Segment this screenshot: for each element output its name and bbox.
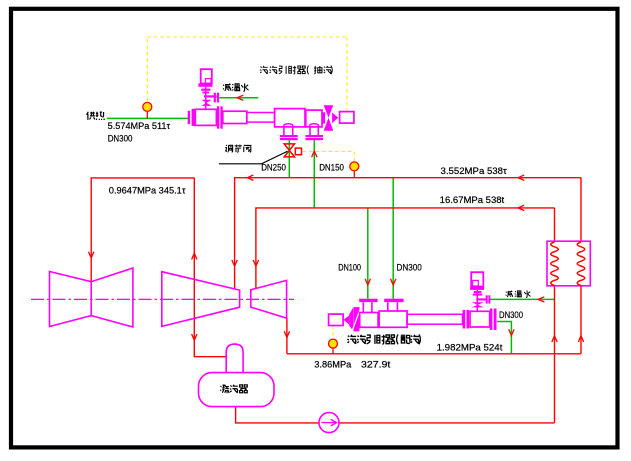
- hx left coil: [551, 242, 559, 285]
- arrow up on IP exhaust riser: [192, 253, 197, 259]
- pump (condensate): [319, 413, 339, 433]
- leader line to control valve label: [219, 151, 288, 164]
- wire crossover pipe 0.9647MPa loop: [91, 178, 194, 281]
- svg-text:5.574MPa 511τ: 5.574MPa 511τ: [108, 121, 171, 131]
- condenser body: [199, 373, 275, 407]
- svg-text:DN300: DN300: [499, 310, 523, 320]
- bottom ejector nozzle DN100: [359, 299, 377, 302]
- svg-text:3.552MPa 538τ: 3.552MPa 538τ: [441, 166, 508, 176]
- control valve DN250 (red): [284, 144, 294, 157]
- wire desuperheating water line (bottom ejector): [490, 298, 555, 300]
- arrow left on 3.552MPa line near HX: [518, 175, 524, 180]
- turbine LP double-flow: [50, 268, 133, 327]
- arrow down on DN100 feed: [365, 279, 370, 285]
- arrow down on 3.552 branch into turbine2: [232, 260, 237, 266]
- water valve actuator (top ejector): [201, 69, 212, 83]
- hx right coil: [577, 242, 585, 285]
- arrow down into LP turbine waist: [89, 252, 94, 258]
- arrow down on DN300 feed: [391, 279, 396, 285]
- top ejector outlet valve disc: [322, 112, 325, 123]
- svg-text:DN300: DN300: [397, 262, 422, 272]
- wire turbine3 exhaust drop: [286, 318, 288, 354]
- water valve body (top ejector): [201, 100, 211, 106]
- wire DN100 feed to bottom ejector nozzle: [367, 208, 369, 299]
- signal wire instrument I1 riser: [146, 37, 148, 101]
- signal wire from control valve to instrument I2: [303, 151, 355, 161]
- top ejector body section 1: [195, 109, 216, 125]
- top ejector throat tube: [247, 113, 275, 123]
- turbine HP: [251, 280, 287, 318]
- control valve actuator square: [295, 148, 301, 155]
- label 汽汽引射器（配汽）: [347, 335, 356, 344]
- bottom ejector end flange pair: [490, 309, 493, 331]
- wire DN250 drop through control valve: [288, 140, 290, 177]
- signal wire instrument I3 riser: [332, 326, 334, 339]
- wire DN300 outlet of bottom ejector: [497, 322, 512, 354]
- wire DN300 feed to bottom ejector nozzle: [392, 178, 394, 299]
- bottom ejector nozzle DN300: [384, 299, 403, 302]
- arrow up below HX right: [578, 336, 583, 342]
- top ejector diffuser box left: [275, 109, 305, 127]
- arrow down on turbine3 exhaust: [284, 331, 289, 337]
- turbine IP: [162, 272, 240, 327]
- water valve body (bottom ejector): [472, 302, 485, 307]
- signal wire top horizontal run: [147, 36, 347, 38]
- label 调节阀: [225, 145, 232, 152]
- wire heating-supply steam line (5.574MPa): [107, 117, 188, 119]
- wire bottom header: [287, 353, 581, 355]
- bottom ejector end box: [329, 314, 344, 325]
- top ejector diffuser box right: [306, 110, 322, 127]
- wire 3.552MPa line: [235, 178, 581, 289]
- water valve stem and flanges (top ejector): [205, 87, 207, 110]
- wire pump discharge: [339, 422, 554, 424]
- wire HX right bottom to header: [580, 286, 582, 354]
- wire HX left inlet drop: [554, 208, 556, 241]
- wire 16.67MPa line: [256, 208, 555, 289]
- label 供热: [86, 112, 95, 120]
- instrument I2 (DN150 gauge): [350, 162, 359, 171]
- instrument I1 (pressure gauge on heating line): [143, 102, 152, 111]
- wire HX left bottom through header to pump line: [554, 286, 556, 423]
- water valve stem and flanges (bottom ejector): [476, 290, 478, 311]
- wire condenser drain to pump: [236, 406, 320, 423]
- arrow down on riser to condenser: [192, 334, 197, 340]
- heat exchanger shell: [547, 241, 590, 286]
- arrow down on 16.67 branch into turbine3: [253, 260, 258, 266]
- svg-text:1.982MPa 524t: 1.982MPa 524t: [437, 343, 503, 353]
- svg-text:DN250: DN250: [261, 163, 286, 173]
- turbine shaft centerline: [31, 298, 294, 300]
- bottom ejector pointer: [343, 315, 349, 324]
- label 减温水 (bottom): [506, 291, 513, 297]
- bottom ejector body right: [470, 311, 490, 327]
- label 减温水 (top): [223, 84, 231, 91]
- label 汽汽引射器（抽汽）: [260, 66, 332, 75]
- top ejector nozzle DN250: [284, 124, 293, 128]
- instrument I3 (3.86MPa gauge): [329, 339, 338, 348]
- bottom ejector main body right: [379, 311, 407, 327]
- svg-text:DN150: DN150: [319, 163, 344, 173]
- arrow left on 3.552MPa line near valve: [247, 175, 253, 180]
- top ejector inlet flange pair: [188, 111, 190, 124]
- svg-text:DN100: DN100: [338, 262, 361, 272]
- top ejector mid flange pair: [217, 106, 219, 128]
- bottom ejector inlet valve disc: [349, 307, 353, 331]
- bottom ejector throat tube: [407, 314, 463, 324]
- wire desuperheating water line (top ejector): [219, 97, 258, 99]
- top ejector body section 2: [223, 111, 247, 123]
- signal wire drop to ejector end box: [346, 37, 348, 110]
- wire IP exhaust riser down to condenser neck: [194, 178, 226, 357]
- svg-text:327.9t: 327.9t: [361, 360, 391, 370]
- arrow left on desuperheating water top: [237, 95, 243, 100]
- top ejector end box: [340, 112, 354, 124]
- arrow down on DN300 outlet: [509, 329, 514, 335]
- svg-text:3.86MPa: 3.86MPa: [314, 360, 351, 370]
- bottom ejector mid flange pair: [463, 310, 466, 329]
- wire DN150 drop: [313, 140, 315, 207]
- arrow left on 16.67MPa line near HX: [518, 205, 524, 210]
- arrow left on desuperheating water bottom: [538, 297, 544, 302]
- water valve actuator (bottom ejector): [471, 272, 483, 286]
- condenser neck: [226, 344, 243, 372]
- top ejector nozzle DN150: [310, 124, 319, 128]
- svg-text:DN300: DN300: [108, 134, 133, 144]
- arrow up below HX left: [552, 336, 557, 342]
- svg-text:16.67MPa 538t: 16.67MPa 538t: [440, 195, 505, 205]
- label 凝汽器: [220, 385, 229, 393]
- svg-text:0.9647MPa 345.1τ: 0.9647MPa 345.1τ: [109, 186, 186, 196]
- wire HX right inlet drop: [580, 178, 582, 242]
- bottom ejector main body left: [360, 313, 378, 328]
- arrow up on DN150 line: [312, 151, 317, 157]
- top ejector outlet pointer: [332, 112, 338, 123]
